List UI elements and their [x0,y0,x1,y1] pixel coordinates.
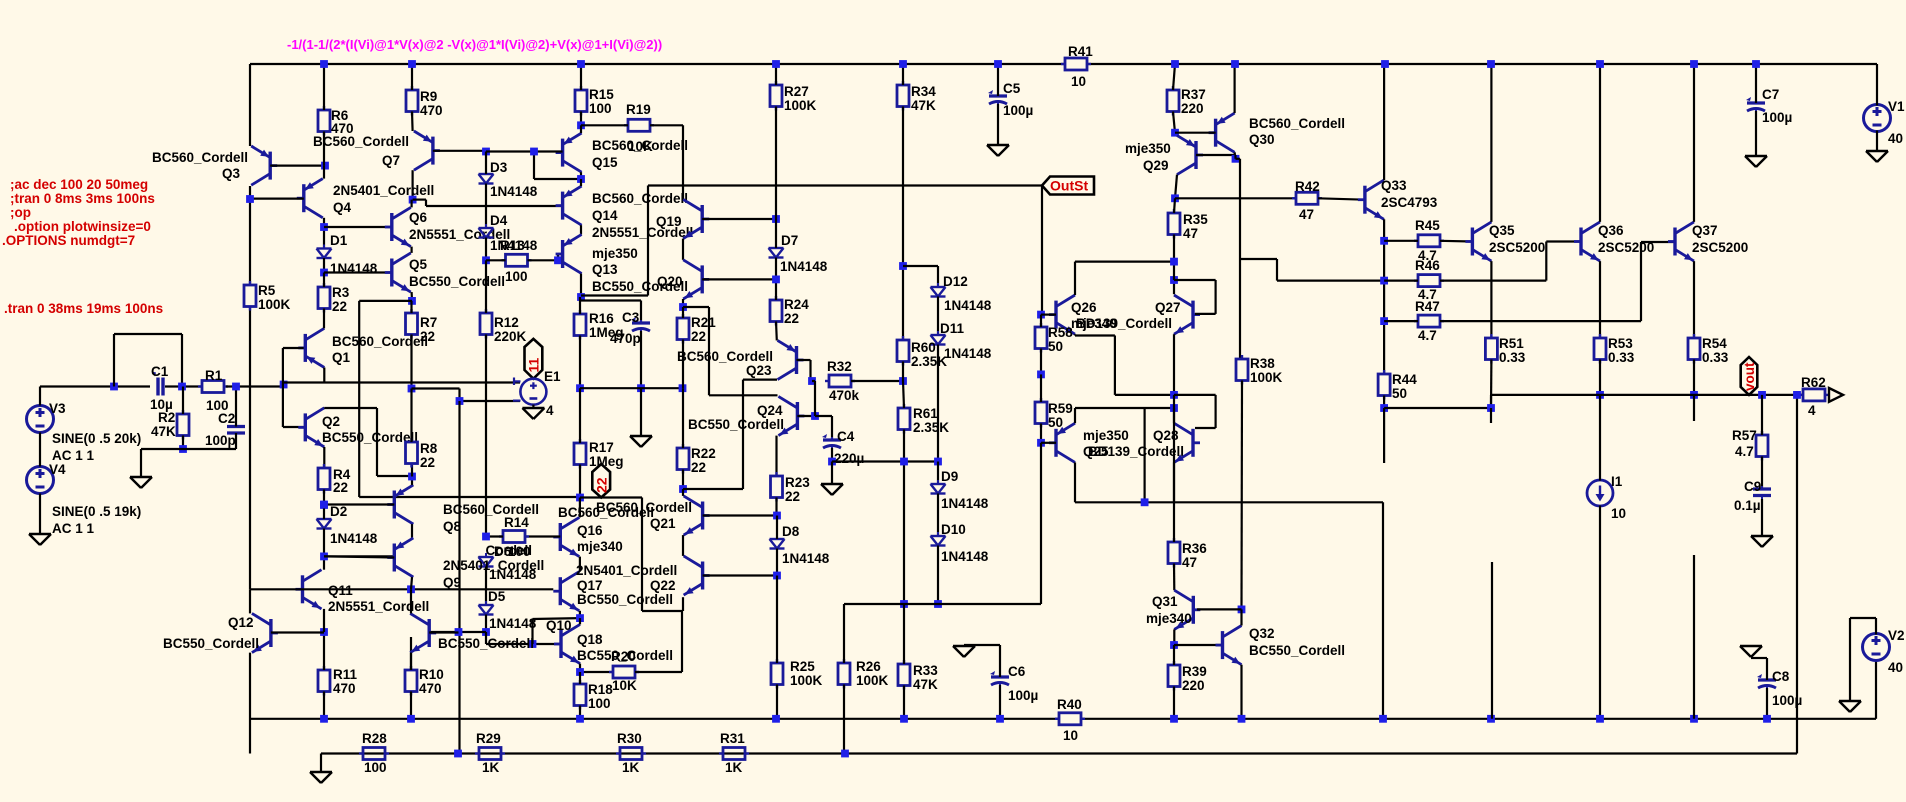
svg-text:Q7: Q7 [382,153,400,168]
junction [1170,641,1178,649]
svg-text:D6: D6 [494,544,512,559]
resistor R54 [1688,334,1700,364]
wire [580,498,682,673]
wire [1175,175,1177,199]
junction [576,384,584,392]
svg-text:R42: R42 [1295,179,1320,194]
junction [110,383,118,391]
wire [682,239,684,260]
wire [1491,394,1803,396]
junction [409,196,417,204]
svg-text:R13: R13 [500,238,525,253]
svg-text:R2: R2 [158,410,175,425]
junction [320,501,328,509]
wire [683,380,777,489]
wire [410,653,412,670]
resistor R2 [177,410,189,440]
wire [486,259,506,261]
svg-text:BC550_Cordell: BC550_Cordell [577,592,673,607]
wire [1383,219,1385,374]
label D4 [490,213,538,253]
svg-text:22: 22 [691,460,706,475]
transistor Q37 [1668,222,1694,261]
svg-text:BC560_Cordell: BC560_Cordell [592,191,688,206]
label D10 [941,522,989,564]
svg-text:BC550_Cordell: BC550_Cordell [438,636,534,651]
transistor Q28 [1174,423,1200,462]
wire [324,408,411,476]
transistor Q10 [410,613,436,652]
wire [412,389,521,402]
ground [1740,646,1762,657]
wire [1175,197,1297,199]
wire [485,238,487,261]
svg-text:vout: vout [1742,362,1757,391]
resistor R14 [499,531,529,543]
label Q15 [592,138,688,170]
wire [797,360,811,381]
wire [182,387,184,415]
svg-text:100: 100 [505,269,528,284]
svg-text:R24: R24 [784,297,809,312]
wire [937,345,939,462]
label R60 [911,340,947,369]
svg-text:1N4148: 1N4148 [941,549,989,564]
svg-text:Q16: Q16 [577,523,603,538]
wire [682,535,684,556]
label R53 [1608,336,1635,365]
wire [165,385,202,387]
svg-text:R47: R47 [1415,299,1440,314]
label R34 [911,84,936,113]
svg-text:470: 470 [419,681,442,696]
capacitor C8 [1757,674,1776,691]
label R15 [589,87,614,116]
wire [411,64,413,90]
svg-text:50: 50 [1048,339,1063,354]
wire [776,549,778,576]
ground [1839,701,1861,712]
wire [1236,159,1385,281]
wire [323,166,325,179]
wire [812,381,815,416]
svg-text:22: 22 [333,480,348,495]
wire [226,385,284,387]
junction [1596,715,1604,723]
svg-text:1N4148: 1N4148 [330,531,378,546]
transistor Q26 [1049,295,1075,334]
label R45 [1415,218,1440,263]
svg-text:R18: R18 [588,682,613,697]
resistor R1 [198,381,228,393]
wire [903,266,938,287]
wire [284,381,520,383]
junction [1141,498,1149,506]
junction [1037,439,1045,447]
junction [637,384,645,392]
transistor Q17 [553,572,579,611]
resistor R9 [406,86,418,116]
wire [775,436,777,476]
resistor R59 [1035,398,1047,428]
capacitor C9 [1753,486,1771,499]
svg-text:100µ: 100µ [1762,110,1792,125]
wire [323,258,325,273]
wire [411,477,413,485]
label Q37 [1692,223,1748,255]
wire [1490,261,1492,338]
svg-text:BC550_Cordell: BC550_Cordell [577,648,673,663]
label V4 [49,462,141,536]
junction [407,585,415,593]
resistor R23 [771,472,783,502]
svg-text:R25: R25 [790,659,815,674]
svg-text:Q19: Q19 [656,214,682,229]
svg-text:R46: R46 [1415,258,1440,273]
wire [323,218,325,249]
wire [413,200,563,206]
capacitor C2 [227,424,245,437]
junction [1758,391,1766,399]
wire [1239,259,1241,359]
wire [1174,198,1175,213]
ground [29,534,51,545]
ground [1745,156,1767,167]
transistor Q5 [385,253,411,292]
wire [682,299,684,307]
wire [1490,360,1493,409]
wire [843,604,845,663]
label C6 [1008,664,1038,703]
wire [1693,555,1695,719]
wire [580,64,582,90]
wire [1040,374,1042,402]
resistor R31 [719,748,749,760]
svg-text:R3: R3 [332,285,350,300]
svg-text:C1: C1 [151,364,169,379]
resistor R61 [898,404,910,434]
transistor Q32 [1216,626,1242,665]
svg-text:220K: 220K [494,329,527,344]
label Q24 [688,403,784,432]
transistor Q19 [683,199,709,238]
resistor R51 [1485,334,1497,364]
label Q3 [152,150,248,181]
wire [323,609,325,632]
svg-text:4.7: 4.7 [1735,444,1754,459]
resistor R26 [838,659,850,689]
transistor Q29 [1177,135,1203,174]
svg-text:47K: 47K [913,677,938,692]
junction [577,175,585,183]
label R2 [151,410,176,439]
svg-text:BD139_Cordell: BD139_Cordell [1088,444,1184,459]
wire [140,449,142,476]
svg-text:C4: C4 [837,429,855,444]
transistor Q9 [387,538,413,577]
wire [1197,608,1242,610]
svg-text:Q21: Q21 [650,516,676,531]
svg-text:Q27: Q27 [1155,300,1181,315]
label D7 [780,233,828,274]
wire [775,219,777,248]
svg-text:R37: R37 [1181,87,1206,102]
label C8 [1772,669,1802,708]
ground [821,484,843,495]
wire [1599,64,1601,222]
label R25 [790,659,823,688]
svg-text:1N4148: 1N4148 [944,346,992,361]
svg-text:C8: C8 [1772,669,1790,684]
wire [249,653,251,754]
svg-text:Q24: Q24 [757,403,783,418]
wire [937,462,939,485]
label R41 [1068,44,1093,89]
svg-text:Q20: Q20 [657,274,683,289]
wire [1234,155,1236,159]
svg-text:V2: V2 [1888,628,1905,643]
svg-text:BC560_Cordell: BC560_Cordell [596,500,692,515]
resistor R22 [677,444,689,474]
wire [1491,562,1493,719]
junction [811,412,819,420]
label Q35 [1489,223,1545,255]
junction [1171,194,1179,202]
wire [324,555,394,557]
svg-text:22: 22 [691,329,706,344]
label R24 [784,297,809,326]
svg-text:R12: R12 [494,315,519,330]
svg-text:R8: R8 [420,441,438,456]
svg-text:100µ: 100µ [1008,688,1038,703]
svg-text:R27: R27 [784,84,809,99]
svg-text:R57: R57 [1732,428,1757,443]
directive tran [4,301,163,316]
svg-text:R39: R39 [1182,664,1207,679]
svg-text:Q29: Q29 [1143,158,1169,173]
svg-text:C7: C7 [1762,87,1779,102]
label R37 [1181,87,1206,116]
wire [1490,408,1492,423]
label Q14 [592,191,693,240]
label Q5 [409,257,505,289]
svg-text:BC550_Cordell: BC550_Cordell [163,636,259,651]
wire [1761,499,1763,535]
junction [994,60,1002,68]
label R29 [476,731,501,775]
svg-text:D8: D8 [782,524,800,539]
svg-text:OutSt: OutSt [1050,178,1088,194]
label C9 [1734,479,1761,513]
junction [1380,277,1388,285]
svg-text:Q15: Q15 [592,155,618,170]
label R12 [494,315,527,344]
ground [130,477,152,488]
wire [235,387,237,427]
svg-text:R33: R33 [913,663,938,678]
label Q4 [333,183,434,215]
junction [1752,60,1760,68]
wire [776,685,778,719]
junction [1763,715,1771,723]
wire [579,297,581,314]
transistor Q31 [1174,590,1200,629]
label R35 [1183,212,1208,241]
svg-text:10K: 10K [612,678,637,693]
svg-text:D5: D5 [488,589,506,604]
svg-text:1K: 1K [482,760,500,775]
diode D1 [317,245,332,263]
svg-text:R17: R17 [589,440,614,455]
ground [522,408,544,419]
wire [682,307,684,318]
label R19 [626,102,653,154]
transistor Q27 [1174,295,1200,334]
wire [581,124,628,126]
label R46 [1415,258,1440,302]
resistor R29 [475,748,505,760]
svg-text:100: 100 [588,696,611,711]
wire [410,637,412,670]
label Q12 [163,615,259,651]
label D1 [330,233,378,276]
junction [679,303,687,311]
label C3 [610,310,641,346]
wire [1766,658,1768,680]
svg-text:Q13: Q13 [592,262,618,277]
svg-text:R16: R16 [589,311,614,326]
junction [808,377,816,385]
label R16 [589,311,624,340]
label Q22 [650,578,676,593]
svg-text:2.35K: 2.35K [911,354,947,369]
svg-text:40: 40 [1888,131,1903,146]
resistor R12 [480,309,492,339]
spice directives [2,177,155,248]
svg-text:1Meg: 1Meg [589,454,624,469]
svg-text:R40: R40 [1057,697,1082,712]
label R28 [362,731,387,775]
svg-text:R58: R58 [1048,325,1073,340]
diode D12 [931,283,946,301]
wire [1761,395,1763,435]
wire [411,292,414,301]
label Q18 [577,632,673,663]
wire [1173,408,1175,542]
junction [179,445,187,453]
junction [1690,391,1698,399]
wire [580,274,582,297]
wire [534,152,581,180]
svg-text:Q10: Q10 [546,618,572,633]
junction [482,628,490,636]
wire [1173,629,1175,645]
junction [679,485,687,493]
wire [1383,64,1385,180]
junction [455,628,463,636]
svg-text:R61: R61 [913,406,938,421]
junction [482,148,490,156]
label R20 [611,649,637,693]
resistor R40 [1055,713,1085,725]
junction [773,572,781,580]
svg-text:R54: R54 [1702,336,1727,351]
wire [410,692,412,719]
resistor R11 [318,666,330,696]
svg-text:1N4148: 1N4148 [490,184,538,199]
junction [280,381,288,389]
wire [903,381,904,408]
net flag 22 [592,464,610,498]
wire [1040,424,1042,443]
svg-text:SINE(0 .5 20k): SINE(0 .5 20k) [52,431,141,446]
label D12 [943,274,992,313]
label Q25 [1083,428,1184,459]
junction [178,383,186,391]
junction [1170,276,1178,284]
svg-text:1Meg: 1Meg [589,325,624,340]
label Q27 [1155,300,1181,315]
transistor Q30 [1209,113,1235,152]
label Q28 [1153,428,1179,443]
svg-text:BC550_Cordell: BC550_Cordell [322,430,418,445]
svg-text:47: 47 [1183,226,1198,241]
ground [1751,536,1773,547]
wire [1766,688,1768,719]
resistor R24 [770,296,782,326]
transistor Q11 [296,570,322,609]
label D11 [940,321,992,361]
resistor R27 [770,81,782,111]
wire [1693,395,1695,421]
wire [1751,657,1767,659]
svg-text:100K: 100K [258,297,291,312]
junction [1170,715,1178,723]
svg-text:.tran 0 38ms 19ms 100ns: .tran 0 38ms 19ms 100ns [4,301,163,316]
wire [324,271,392,273]
wire [1693,64,1695,222]
label Q9 [443,558,544,590]
svg-text:Q9: Q9 [443,575,461,590]
svg-text:1N4148: 1N4148 [489,616,537,631]
svg-text:;op: ;op [10,205,31,220]
svg-text:40: 40 [1888,660,1903,675]
svg-text:R15: R15 [589,87,614,102]
svg-text:Q14: Q14 [592,208,618,223]
transistor Q35 [1465,222,1491,261]
svg-text:BC560_Cordell: BC560_Cordell [1249,116,1345,131]
wire [579,706,581,719]
wire [964,644,1000,646]
svg-text:0.33: 0.33 [1499,350,1526,365]
wire [270,165,325,167]
svg-text:100p: 100p [205,433,236,448]
svg-text:R38: R38 [1250,356,1275,371]
wire [1693,360,1695,395]
transistor Q1 [298,328,324,367]
resistor R6 [318,106,330,136]
label D5 [488,589,537,631]
svg-text:100µ: 100µ [1003,103,1033,118]
svg-text:R7: R7 [420,315,437,330]
label R58 [1048,325,1073,354]
svg-text:10: 10 [1611,506,1626,521]
svg-text:R36: R36 [1182,541,1207,556]
wire [485,335,487,537]
resistor R37 [1167,86,1179,116]
junction [679,384,687,392]
svg-text:50: 50 [1392,386,1407,401]
